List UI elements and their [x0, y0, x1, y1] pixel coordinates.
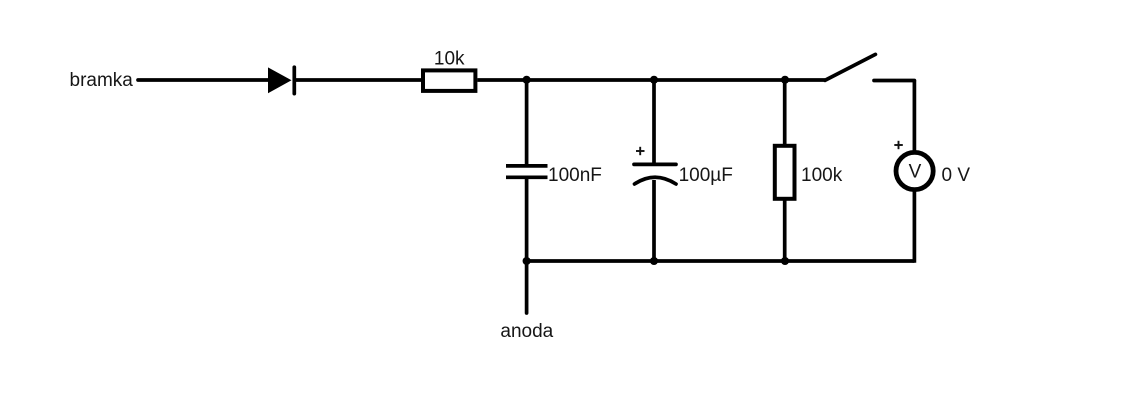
- wire top bus node A to switch: [527, 78, 825, 82]
- wire C2 top lead: [652, 80, 656, 163]
- capacitor C2 100uF polarity plus: [636, 147, 645, 155]
- svg-text:anoda: anoda: [500, 321, 553, 342]
- wire bottom bus: [527, 259, 915, 263]
- junction bottom C2: [650, 257, 658, 265]
- junction node A top (C1): [523, 76, 531, 84]
- wire C1 bottom lead: [525, 179, 529, 262]
- svg-text:100µF: 100µF: [679, 165, 733, 186]
- wire voltmeter bottom lead: [913, 190, 917, 263]
- capacitor C2 100uF: [634, 164, 676, 184]
- switch S1 lever: [825, 54, 875, 80]
- junction bottom C1 / anoda: [523, 257, 531, 265]
- junction top C2: [650, 76, 658, 84]
- resistor R2 100k: [775, 146, 795, 199]
- svg-text:0 V: 0 V: [942, 165, 971, 186]
- voltmeter V1: [896, 152, 933, 189]
- wire C2 bottom lead: [652, 180, 656, 261]
- switch S1 right contact wire: [874, 79, 914, 83]
- wire anoda stub: [525, 261, 529, 313]
- svg-text:100nF: 100nF: [548, 165, 602, 186]
- wire R2 top lead: [783, 80, 787, 145]
- capacitor C1 100nF: [506, 166, 548, 177]
- svg-text:V: V: [909, 161, 922, 182]
- voltmeter V1 polarity plus: [894, 141, 903, 149]
- wire diode cathode to resistor R1: [294, 78, 423, 82]
- svg-text:100k: 100k: [801, 165, 843, 186]
- junction top R2: [781, 76, 789, 84]
- wire switch to voltmeter: [913, 81, 917, 153]
- resistor R1 10k: [423, 70, 475, 91]
- svg-text:bramka: bramka: [70, 70, 134, 91]
- wire C1 top lead: [525, 80, 529, 165]
- diode D1: [268, 67, 294, 93]
- wire bramka to diode anode: [138, 78, 268, 82]
- svg-text:10k: 10k: [434, 49, 465, 70]
- junction bottom R2: [781, 257, 789, 265]
- wire R2 bottom lead: [783, 199, 787, 261]
- wire resistor R1 to node A: [477, 78, 526, 82]
